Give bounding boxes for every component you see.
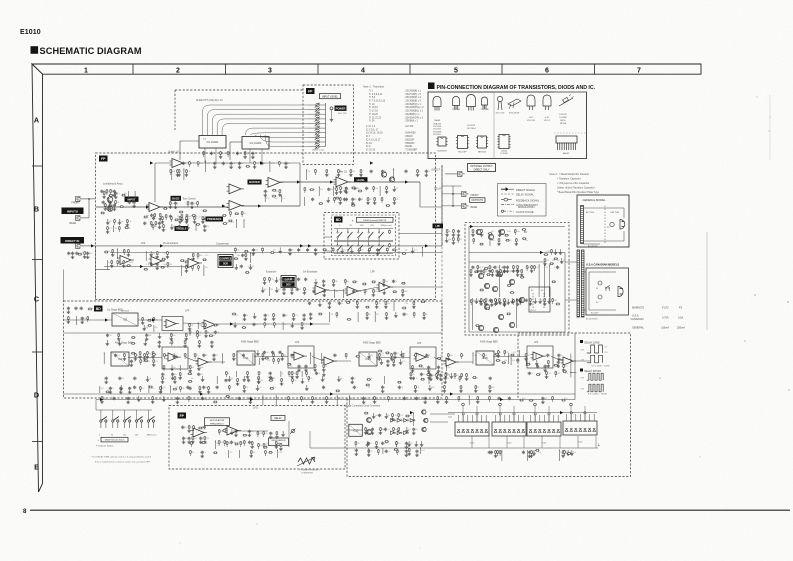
- resistor R382: [319, 203, 324, 205]
- resistor R60: [126, 265, 131, 267]
- resistor R308: [368, 449, 370, 453]
- ground: [185, 173, 187, 175]
- signal arrow: [200, 392, 203, 395]
- diode SLP-1Y8: [497, 96, 502, 101]
- capacitor C134: [176, 397, 178, 398]
- resistor R114: [517, 269, 519, 273]
- capacitor C36: [504, 270, 506, 271]
- ground: [81, 320, 83, 322]
- resistor R282: [457, 237, 459, 241]
- wire: [64, 332, 443, 334]
- signal arrow: [297, 180, 300, 183]
- wire riser: [559, 436, 561, 448]
- wire: [369, 252, 371, 254]
- ground: [319, 301, 321, 303]
- USA power plug icon: [618, 287, 623, 297]
- ground: [377, 252, 379, 254]
- wire: [197, 323, 199, 329]
- wire: [445, 377, 447, 379]
- capacitor C6: [113, 204, 115, 205]
- resistor R201: [336, 390, 341, 392]
- resistor R339: [301, 396, 303, 400]
- wire: [461, 357, 463, 359]
- wire: [520, 302, 522, 304]
- op-amp deemp2: [347, 287, 358, 296]
- wire: [359, 252, 361, 254]
- ground: [322, 376, 324, 378]
- wire: [501, 450, 503, 461]
- ground: [251, 445, 253, 447]
- test point: [570, 403, 573, 406]
- wire: [329, 312, 331, 322]
- capacitor C133: [127, 397, 129, 398]
- wire: [396, 445, 398, 447]
- resistor R249: [359, 248, 361, 252]
- wire: [145, 251, 147, 261]
- IC IC9 BBD: [111, 352, 129, 366]
- ground: [67, 320, 69, 322]
- capacitor C59: [517, 359, 519, 360]
- ground: [139, 355, 141, 357]
- resistor R399: [258, 371, 260, 375]
- ground: [234, 322, 236, 324]
- wire: [258, 447, 260, 449]
- wire: [197, 257, 199, 259]
- wire: [412, 413, 414, 426]
- signal arrow: [330, 392, 333, 395]
- capacitor C17: [345, 198, 347, 199]
- switch delay 2-3: [357, 242, 359, 245]
- resistor R125: [551, 249, 553, 253]
- wire: [321, 353, 323, 364]
- wire: [551, 253, 553, 255]
- resistor R124: [544, 254, 549, 256]
- resistor R42: [358, 190, 363, 192]
- resistor R147: [139, 351, 141, 355]
- capacitor C97: [252, 248, 254, 249]
- wire: [249, 149, 251, 163]
- resistor R61: [156, 251, 158, 255]
- resistor R140: [273, 313, 275, 317]
- capacitor C102: [377, 248, 379, 249]
- capacitor C126: [203, 354, 205, 355]
- resistor R284: [480, 289, 485, 291]
- ground: [525, 357, 527, 359]
- wire: [308, 132, 316, 134]
- resistor R105: [522, 238, 527, 240]
- wire: [483, 357, 485, 359]
- wire: [308, 380, 310, 382]
- ground: [192, 440, 194, 442]
- wire: [319, 146, 325, 148]
- ground: [368, 453, 370, 455]
- wire: [396, 453, 398, 455]
- resistor R90: [364, 289, 366, 293]
- wire: [498, 302, 500, 304]
- resistor R355: [226, 441, 228, 445]
- test point: [534, 403, 537, 406]
- resistor R312: [134, 353, 136, 357]
- resistor R314: [152, 353, 157, 355]
- resistor R25: [192, 214, 197, 216]
- capacitor C5: [113, 190, 115, 191]
- zener diode case VDC-2R: [527, 95, 535, 106]
- resistor R54: [112, 249, 114, 253]
- ground: [498, 242, 500, 244]
- capacitor C81: [183, 437, 185, 438]
- resistor R311: [123, 353, 125, 357]
- capacitor C61: [544, 365, 546, 366]
- ground: [531, 269, 533, 271]
- resistor R74: [197, 265, 199, 269]
- wire: [128, 357, 162, 359]
- resistor R297: [498, 298, 500, 302]
- resistor R300: [520, 298, 522, 302]
- ground: [475, 298, 477, 300]
- ground: [410, 376, 412, 378]
- wire: [230, 141, 242, 143]
- resistor R202: [365, 384, 370, 386]
- op-amp IC1c: [229, 201, 241, 211]
- wire: [148, 385, 150, 393]
- capacitor C143: [508, 397, 510, 398]
- capacitor C190: [558, 354, 560, 355]
- signal arrow: [222, 204, 225, 207]
- wire: [493, 356, 527, 358]
- transistor Tr21: [484, 304, 489, 309]
- resistor R76: [245, 253, 247, 257]
- capacitor C153: [230, 162, 232, 163]
- wire riser long: [476, 406, 478, 422]
- switch delay 1-5: [378, 229, 380, 232]
- resistor R261: [421, 301, 426, 303]
- resistor R136: [189, 330, 191, 334]
- ground: [162, 380, 164, 382]
- wire: [308, 136, 316, 138]
- ground: [311, 400, 313, 402]
- capacitor C125: [115, 354, 117, 355]
- ground: [408, 441, 410, 443]
- ground: [230, 165, 232, 167]
- wire: [483, 273, 485, 275]
- label DELAY LONG: [580, 340, 583, 343]
- wire: [243, 220, 245, 228]
- switch selector 4: [136, 420, 138, 422]
- ground: [546, 375, 548, 377]
- pin circles IC25: [570, 412, 572, 414]
- transistor Tr15: [488, 234, 493, 239]
- ground: [372, 293, 374, 295]
- ground: [104, 207, 106, 209]
- capacitor C76: [353, 386, 355, 387]
- resistor R230: [405, 415, 410, 417]
- transistor Tr clock5: [422, 427, 426, 431]
- ground: [500, 273, 502, 275]
- capacitor C166: [178, 225, 180, 226]
- wire: [263, 447, 265, 449]
- resistor R416: [199, 386, 201, 390]
- ground: [142, 321, 144, 323]
- switch delay 2-1: [337, 242, 339, 245]
- resistor R142: [242, 327, 247, 329]
- resistor R371: [278, 161, 280, 165]
- ground: [276, 435, 278, 437]
- resistor R252: [392, 249, 397, 251]
- ground: [176, 400, 178, 402]
- ground: [290, 281, 292, 283]
- capacitor C178: [382, 442, 384, 443]
- wire: [282, 322, 284, 330]
- ground: [279, 248, 281, 250]
- ground: [244, 155, 246, 157]
- resistor R294: [480, 298, 482, 302]
- ground: [194, 220, 196, 222]
- switch delay 2-2: [347, 242, 349, 245]
- resistor R365: [67, 316, 69, 320]
- capacitor C189: [547, 354, 549, 355]
- resistor R398: [247, 371, 249, 375]
- wire: [342, 289, 344, 298]
- resistor R318: [233, 353, 235, 357]
- wire: [83, 217, 90, 219]
- resistor R155: [179, 372, 181, 376]
- potentiometer VR6: [316, 127, 319, 130]
- potentiometer VR2: [316, 108, 319, 111]
- ground: [120, 390, 122, 392]
- wire: [184, 357, 186, 359]
- wire riser long: [548, 406, 550, 422]
- resistor R331: [483, 353, 485, 357]
- resistor R269: [118, 333, 120, 337]
- label BUFFER: [248, 180, 262, 185]
- capacitor C96: [529, 451, 531, 452]
- capacitor C151: [214, 162, 216, 163]
- wire: [413, 316, 415, 318]
- signal arrow: [100, 398, 103, 401]
- wire: [319, 109, 325, 111]
- ground: [172, 376, 174, 378]
- capacitor C142: [498, 397, 500, 398]
- wire: [319, 127, 325, 129]
- ground: [380, 359, 382, 361]
- capacitor C152: [222, 162, 224, 163]
- wire: [552, 400, 554, 402]
- wire riser: [488, 436, 490, 448]
- ground: [472, 233, 474, 235]
- wire: [193, 429, 195, 431]
- wire: [197, 269, 199, 271]
- op-amp IC9b: [198, 358, 208, 366]
- ground: [126, 223, 128, 225]
- resistor R31: [241, 211, 243, 215]
- wire: [312, 357, 324, 362]
- resistor R92: [393, 291, 398, 293]
- ground: [72, 255, 74, 257]
- transistor Tr6: [389, 177, 394, 182]
- resistor R35: [177, 169, 179, 173]
- signal arrow: [500, 398, 503, 401]
- wire: [169, 386, 171, 393]
- resistor R295: [485, 298, 487, 302]
- wire: [497, 454, 499, 456]
- IC NJM4558: [438, 137, 446, 146]
- ground: [323, 371, 325, 373]
- potentiometer VR8: [316, 136, 319, 139]
- title SCHEMATIC DIAGRAM: [31, 46, 39, 54]
- resistor R424: [121, 194, 126, 196]
- wire: [308, 113, 316, 115]
- capacitor C73: [444, 377, 446, 378]
- ground: [281, 382, 283, 384]
- resistor R34: [170, 169, 172, 173]
- ground: [517, 273, 519, 275]
- ground: [351, 380, 353, 382]
- ground: [438, 369, 440, 371]
- resistor R256: [365, 306, 370, 308]
- resistor R47: [351, 204, 356, 206]
- resistor R152: [153, 359, 155, 363]
- IC TC4069BP: [499, 135, 509, 149]
- resistor R97: [504, 234, 509, 236]
- resistor R417: [208, 386, 210, 390]
- wire: [257, 435, 259, 437]
- resistor R405: [420, 378, 425, 380]
- wire: [152, 228, 154, 230]
- capacitor C176: [189, 387, 191, 388]
- ground: [517, 302, 519, 304]
- resistor R71: [202, 259, 207, 261]
- resistor R421: [408, 448, 410, 452]
- ground: [289, 252, 291, 254]
- ground: [489, 269, 491, 271]
- ground: [477, 269, 479, 271]
- zener diode case VDC-2: [543, 95, 551, 106]
- pin circles IC23: [499, 413, 501, 415]
- ground: [503, 269, 505, 271]
- resistor R221: [263, 431, 265, 435]
- ground: [470, 273, 472, 275]
- resistor R198: [397, 381, 402, 383]
- wire riser: [541, 436, 543, 448]
- capacitor C80: [203, 426, 205, 427]
- ground: [243, 389, 245, 391]
- wire: [136, 410, 138, 420]
- wire main input rail: [96, 206, 151, 208]
- wire: [204, 327, 206, 329]
- ground: [413, 305, 415, 307]
- diode array IC23: [492, 422, 526, 436]
- capacitor C131: [426, 354, 428, 355]
- resistor R255: [356, 301, 358, 305]
- wire: [544, 265, 546, 297]
- resistor R173: [436, 372, 438, 376]
- resistor R94: [472, 229, 474, 233]
- resistor R232: [379, 427, 381, 431]
- transistor Tr26: [519, 297, 524, 302]
- wire riser: [471, 436, 473, 448]
- signal arrow: [308, 244, 311, 247]
- capacitor C111: [211, 341, 213, 342]
- resistor R344: [437, 396, 439, 400]
- resistor R186: [563, 371, 568, 373]
- resistor R389: [161, 216, 163, 220]
- wire: [304, 191, 306, 193]
- resistor R33: [228, 220, 233, 222]
- op-amp deemp1: [315, 286, 326, 295]
- resistor R167: [385, 352, 390, 354]
- op-amp lpf1: [120, 256, 131, 265]
- ground: [291, 322, 293, 324]
- resistor R296: [494, 298, 496, 302]
- resistor R219: [243, 440, 245, 444]
- ground: [281, 357, 283, 359]
- resistor R427: [78, 253, 83, 255]
- resistor R356: [240, 441, 242, 445]
- wire: [222, 353, 224, 364]
- wire: [180, 265, 182, 276]
- ground: [293, 317, 295, 319]
- direct output jack: [458, 172, 463, 177]
- transistor Tr20: [492, 286, 497, 291]
- wire: [235, 371, 237, 377]
- resistor R39: [279, 189, 281, 193]
- wire: [377, 453, 379, 455]
- wire: [95, 400, 97, 411]
- ground: [205, 334, 207, 336]
- ground: [243, 376, 245, 378]
- ground: [214, 165, 216, 167]
- ground: [159, 333, 161, 335]
- ground: [127, 400, 129, 402]
- ground: [177, 173, 179, 175]
- capacitor C124: [416, 450, 418, 451]
- resistor R112: [507, 284, 512, 286]
- transistor case TO-92 group2: [453, 97, 460, 106]
- ground: [249, 400, 251, 402]
- resistor R364: [88, 308, 93, 310]
- ground: [170, 337, 172, 339]
- wire: [180, 140, 199, 142]
- ground: [186, 220, 188, 222]
- ground: [504, 303, 506, 305]
- wire: [165, 218, 167, 220]
- ground: [280, 447, 282, 449]
- ground: [428, 369, 430, 371]
- wire: [228, 450, 230, 458]
- ground: [374, 201, 376, 203]
- ground: [111, 264, 113, 266]
- resistor R181: [554, 364, 559, 366]
- wire: [379, 186, 381, 196]
- capacitor C98: [289, 248, 291, 249]
- resistor R368: [197, 161, 199, 165]
- capacitor C91: [384, 428, 386, 429]
- ground: [150, 251, 152, 253]
- wire: [225, 375, 227, 377]
- resistor R141: [293, 313, 295, 317]
- capacitor C159: [405, 170, 407, 171]
- capacitor C55: [387, 360, 389, 361]
- ground: [279, 193, 281, 195]
- IC20 clock: [349, 424, 363, 436]
- ground: [144, 357, 146, 359]
- ground: [383, 289, 385, 291]
- resistor R363: [264, 450, 266, 454]
- wire: [510, 358, 512, 365]
- ground: [123, 357, 125, 359]
- resistor R56: [127, 249, 129, 253]
- resistor R239: [535, 449, 540, 451]
